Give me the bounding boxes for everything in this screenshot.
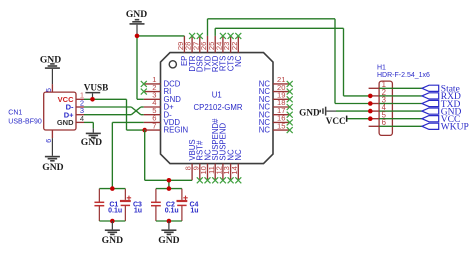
net port State — [392, 85, 459, 95]
U1 bottom pin 13 NC — [222, 149, 235, 183]
ground flag left of H1 — [299, 107, 326, 118]
net port VCC — [392, 115, 460, 125]
U1 left pin 5 D- — [144, 106, 172, 119]
capacitor C4 1u polarized — [177, 189, 199, 221]
node VUSB junction — [90, 97, 95, 102]
node bottom junction C1C3 — [110, 219, 115, 224]
wire REGIN to VBUS — [145, 130, 192, 180]
wire TXD from U1 to H1 pin 3 — [208, 19, 371, 104]
U1 right pin 21 NC — [259, 75, 293, 88]
svg-text:22: 22 — [230, 42, 239, 50]
U1 top pin 24 RTS — [215, 33, 228, 71]
svg-text:7: 7 — [152, 121, 156, 130]
wire down to C2 C4 — [168, 180, 170, 188]
ground flag above U1 — [126, 9, 147, 36]
svg-text:GND: GND — [126, 9, 147, 20]
svg-text:14: 14 — [230, 166, 239, 174]
H1 pin 2 — [369, 88, 393, 97]
svg-text:4: 4 — [80, 114, 84, 123]
wire bottom of C1 C3 — [99, 220, 125, 222]
U1 top pin 28 DTR — [184, 33, 197, 72]
connector CN1 USB-BF90 — [8, 92, 76, 130]
H1 pin 5 — [369, 111, 393, 120]
capacitor C3 1u polarized — [120, 189, 142, 221]
wire D- from CN1 to U1 — [84, 107, 144, 115]
ground flag below CN1 — [42, 138, 63, 173]
net port TXD — [392, 100, 460, 110]
capacitor C1 0.1u — [94, 189, 122, 221]
pin 2 D- of CN1 — [76, 98, 84, 107]
svg-text:WKUP: WKUP — [441, 123, 469, 133]
svg-text:NC: NC — [234, 55, 243, 67]
U1 bottom pin 11 SUSPEND# — [207, 118, 220, 183]
svg-text:0.1u: 0.1u — [108, 208, 122, 215]
svg-text:GND: GND — [158, 235, 179, 246]
svg-text:CP2102-GMR: CP2102-GMR — [194, 103, 243, 112]
ground flag right of CN1 — [81, 128, 102, 148]
pin 3 D+ of CN1 — [76, 106, 84, 115]
op-amp U1 CP2102-GMR IC body — [161, 53, 274, 164]
ground flag above CN1 — [40, 54, 61, 84]
U1 top pin 27 DSR — [191, 33, 204, 72]
U1 left pin 3 GND — [144, 91, 181, 104]
U1 right pin 20 NC — [259, 83, 293, 96]
H1 pin 3 — [369, 95, 393, 104]
wire bottom of C2 C4 — [156, 220, 182, 222]
power flag VUSB — [84, 82, 109, 99]
ground flag below C1 C3 — [102, 221, 123, 246]
wire H1 pin5 to VCC — [347, 118, 370, 120]
U1 bottom pin 14 NC — [230, 149, 243, 183]
node REGIN junction — [142, 128, 147, 133]
wire VCC to VUSB and REGIN — [84, 99, 147, 130]
svg-text:NC: NC — [259, 126, 271, 135]
H1 pin 4 — [369, 103, 393, 112]
U1 bottom pin 10 NC — [199, 149, 212, 183]
U1 left pin 4 D+ — [144, 98, 174, 111]
wire RXD from U1 to H1 pin 2 — [215, 28, 370, 96]
U1 bottom pin 9 RST# — [191, 140, 204, 183]
svg-text:GND: GND — [299, 107, 320, 117]
U1 top pin 23 CTS — [222, 33, 235, 71]
U1 top pin 25 RXD — [207, 36, 220, 72]
U1 bottom pin 12 SUSPEND — [215, 123, 228, 184]
U1 right pin 18 NC — [259, 98, 293, 111]
net port WKUP — [392, 123, 468, 133]
node top junction C1C3 — [110, 186, 115, 191]
svg-text:GND: GND — [102, 235, 123, 246]
svg-text:1u: 1u — [134, 208, 142, 215]
node VBUS junction — [167, 178, 172, 183]
U1 left pin 7 REGIN — [144, 121, 188, 134]
connector H1 HDR-F-2.54_1x6 — [377, 65, 430, 136]
node H1 pin3 junction — [368, 101, 373, 106]
wire VDD to C1 C3 — [112, 122, 143, 188]
wire CN1 GND pin to ground — [84, 122, 93, 128]
svg-text:GND: GND — [40, 54, 61, 65]
node bottom junction C2C4 — [167, 219, 172, 224]
node GND junction — [135, 34, 140, 39]
ground flag below C2 C4 — [158, 221, 179, 246]
U1 right pin 19 NC — [259, 91, 293, 104]
net port RXD — [392, 92, 461, 102]
capacitor C2 0.1u — [151, 189, 179, 221]
wire D+ from CN1 to U1 — [84, 107, 144, 115]
node H1 pin2 junction — [368, 94, 373, 99]
wire top of C1 C3 — [99, 188, 125, 190]
U1 left pin 6 VDD — [144, 114, 181, 127]
svg-text:CN1: CN1 — [8, 110, 22, 117]
node H1 pin5 junction — [368, 116, 373, 121]
U1 top pin 22 NC — [230, 33, 243, 67]
svg-text:U1: U1 — [212, 91, 222, 100]
U1 right pin 17 NC — [259, 106, 293, 119]
svg-text:NC: NC — [234, 149, 243, 161]
svg-text:GND: GND — [81, 137, 102, 148]
wire GND down to U1 GND pin — [137, 36, 144, 99]
svg-text:VCC: VCC — [326, 116, 346, 126]
H1 pin 6 — [369, 118, 393, 127]
pin 1 VCC of CN1 — [76, 91, 84, 100]
svg-text:6: 6 — [382, 118, 386, 127]
power flag VCC — [326, 116, 348, 127]
svg-text:REGIN: REGIN — [164, 126, 189, 135]
wire H1 pin4 to ground — [326, 110, 336, 112]
pin 6 shield of CN1 — [46, 130, 53, 143]
svg-text:1u: 1u — [190, 208, 198, 215]
wire top of C2 C4 — [156, 188, 182, 190]
svg-text:5: 5 — [46, 88, 53, 92]
H1 pin 1 — [369, 80, 393, 89]
U1 left pin 2 RI — [141, 83, 172, 96]
U1 right pin 15 NC — [259, 121, 293, 134]
U1 top pin 29 EP — [176, 36, 189, 66]
svg-text:VUSB: VUSB — [84, 82, 109, 92]
U1 right pin 16 NC — [259, 114, 293, 127]
U1 left pin 1 DCD — [141, 75, 181, 88]
node H1 pin4 junction — [368, 109, 373, 114]
svg-text:15: 15 — [277, 121, 285, 130]
net port GND — [392, 107, 461, 117]
svg-text:H1: H1 — [377, 65, 386, 72]
svg-text:USB-BF90: USB-BF90 — [8, 119, 42, 126]
svg-text:0.1u: 0.1u — [165, 208, 179, 215]
node top junction C2C4 — [167, 186, 172, 191]
svg-text:HDR-F-2.54_1x6: HDR-F-2.54_1x6 — [377, 72, 430, 79]
svg-text:GND: GND — [42, 162, 63, 173]
U1 bottom pin 8 VBUS — [184, 139, 197, 180]
pin 4 GND of CN1 — [76, 114, 84, 123]
svg-text:GND: GND — [57, 118, 74, 127]
pin 5 shield of CN1 — [46, 84, 53, 92]
wire GND to EP pin — [137, 35, 184, 37]
U1 top pin 26 TXD — [199, 36, 212, 71]
